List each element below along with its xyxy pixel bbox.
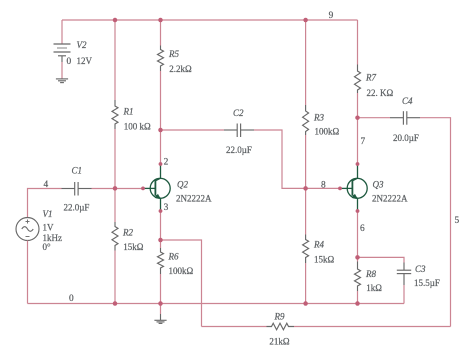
wire C1 to base node: [92, 188, 144, 190]
svg-text:0: 0: [67, 57, 72, 67]
svg-text:C2: C2: [233, 108, 244, 118]
resistor R8: [355, 262, 361, 292]
node dot emitter junction Q3: [355, 255, 360, 260]
svg-text:C4: C4: [402, 96, 413, 106]
wire emitter junction to R6: [160, 240, 162, 248]
svg-text:Q2: Q2: [177, 180, 188, 190]
wire emitter junction to C3: [358, 257, 405, 262]
capacitor C2: [224, 124, 254, 138]
wire bottom rail node 0: [28, 303, 405, 305]
wire R9 row right: [294, 326, 451, 328]
resistor R9: [267, 323, 295, 330]
wire Q2 emitter to junction: [160, 211, 162, 240]
wire V1 bottom: [27, 241, 29, 304]
node dot rail R4: [303, 301, 308, 306]
svg-text:20.0µF: 20.0µF: [393, 133, 419, 143]
wire V1 top to C1: [28, 189, 62, 218]
wire R1 column upper: [114, 20, 116, 100]
wire C2 to node 8: [254, 130, 340, 188]
pin dot Q3 base: [338, 187, 342, 191]
wire C2 row left: [161, 129, 225, 131]
svg-text:100kΩ: 100kΩ: [315, 127, 340, 137]
wire R2 bottom: [114, 251, 116, 304]
svg-text:15kΩ: 15kΩ: [314, 255, 335, 265]
svg-text:3: 3: [164, 203, 169, 213]
wire R7 to node 7: [357, 93, 359, 118]
svg-text:R5: R5: [168, 49, 179, 59]
wire C3 bottom: [403, 285, 405, 304]
capacitor C4: [390, 111, 420, 125]
svg-text:1kΩ: 1kΩ: [366, 283, 382, 293]
svg-text:100kΩ: 100kΩ: [169, 266, 194, 276]
resistor R5: [158, 46, 164, 72]
svg-text:22.0µF: 22.0µF: [64, 203, 90, 213]
svg-text:4: 4: [44, 180, 49, 190]
svg-text:R4: R4: [313, 240, 324, 250]
wire R5 to C2 junction: [160, 71, 162, 130]
svg-text:0: 0: [69, 294, 74, 304]
resistor R6: [158, 248, 164, 274]
capacitor C1: [62, 182, 92, 196]
node dot rail R6/ground: [158, 301, 163, 306]
wire R4 bottom: [305, 263, 307, 304]
svg-text:22.0µF: 22.0µF: [226, 145, 252, 155]
svg-text:R9: R9: [274, 312, 285, 322]
svg-text:21kΩ: 21kΩ: [269, 337, 290, 347]
svg-text:22. KΩ: 22. KΩ: [367, 88, 394, 98]
source V1: [16, 218, 39, 241]
svg-text:0°: 0°: [43, 242, 52, 252]
battery V2: [54, 44, 71, 62]
wire R6 bottom: [160, 274, 162, 304]
svg-text:15.5µF: 15.5µF: [414, 278, 440, 288]
node dot rail R8: [355, 301, 360, 306]
svg-text:R7: R7: [365, 73, 376, 83]
node dot rail R5: [158, 18, 163, 23]
wire junction to Q2 collector: [160, 130, 162, 164]
wire Q3 emitter to junction: [357, 211, 359, 257]
resistor R3: [303, 105, 309, 135]
wire R8 bottom: [357, 291, 359, 304]
pin dot Q2 emitter: [159, 209, 163, 213]
resistor R1: [112, 100, 118, 129]
wire C4 row left: [358, 117, 391, 119]
svg-text:C3: C3: [415, 264, 426, 274]
node dot R5/C2: [158, 128, 163, 133]
wire R5 column upper: [160, 20, 162, 46]
svg-text:5: 5: [455, 216, 460, 226]
transistor Q3: [340, 164, 368, 211]
svg-text:R3: R3: [313, 113, 324, 123]
svg-text:100 kΩ: 100 kΩ: [124, 122, 151, 132]
wire R9 row left: [202, 326, 267, 328]
pin dot Q2 base: [141, 187, 145, 191]
svg-text:V1: V1: [43, 209, 53, 219]
wire feedback from emitter junction: [161, 240, 202, 327]
pin dot Q3 collector: [356, 162, 360, 166]
svg-text:2.2kΩ: 2.2kΩ: [169, 64, 192, 74]
svg-text:R1: R1: [123, 107, 134, 117]
ground (under R6): [160, 304, 162, 315]
svg-text:7: 7: [361, 137, 366, 147]
svg-text:8: 8: [321, 181, 326, 191]
svg-text:15kΩ: 15kΩ: [123, 242, 144, 252]
wire R8 top: [357, 257, 359, 261]
wire battery top: [61, 20, 63, 44]
svg-text:R2: R2: [122, 228, 133, 238]
svg-text:2: 2: [164, 158, 169, 168]
wire R3 column upper: [305, 20, 307, 105]
node dot 7: [355, 115, 360, 120]
node dot base node Q2: [113, 186, 118, 191]
resistor R2: [112, 222, 118, 251]
svg-text:2N2222A: 2N2222A: [372, 193, 408, 203]
svg-text:1V: 1V: [43, 223, 55, 233]
node dot rail R1: [113, 18, 118, 23]
svg-text:C1: C1: [72, 166, 83, 176]
svg-text:R6: R6: [168, 252, 179, 262]
svg-text:V2: V2: [77, 40, 87, 50]
resistor R4: [303, 235, 309, 264]
svg-text:9: 9: [329, 11, 334, 21]
wire battery to ground: [61, 62, 63, 79]
wire C4 to right edge node 5: [420, 118, 451, 327]
wire R3 to node 8: [305, 135, 307, 188]
node dot rail R2: [113, 301, 118, 306]
node dot emitter junction Q2: [158, 238, 163, 243]
resistor R7: [355, 65, 361, 94]
pin dot Q3 emitter: [356, 209, 360, 213]
svg-text:6: 6: [360, 224, 365, 234]
wire R4 top: [305, 188, 307, 234]
wire R1 to base node: [114, 129, 116, 188]
wire node7 to Q3 collector: [357, 118, 359, 164]
transistor Q2: [143, 164, 171, 211]
svg-text:2N2222A: 2N2222A: [176, 193, 212, 203]
svg-text:R8: R8: [365, 269, 376, 279]
node dot rail R3: [303, 18, 308, 23]
svg-text:12V: 12V: [77, 56, 93, 66]
wire top rail node 9: [62, 19, 358, 21]
pin dot Q2 collector: [159, 162, 163, 166]
wire R7 column upper: [357, 20, 359, 65]
node dot 8: [303, 186, 308, 191]
capacitor C3: [397, 263, 411, 286]
ground (battery): [56, 79, 68, 83]
wire R2 top: [114, 188, 116, 222]
svg-text:Q3: Q3: [373, 180, 384, 190]
